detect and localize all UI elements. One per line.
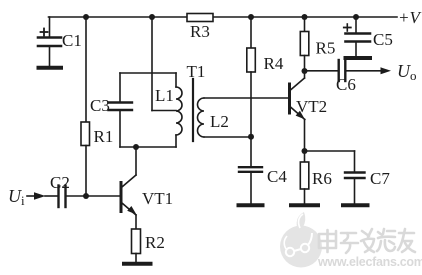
node: R4/L2/C4 junction: [248, 134, 254, 140]
svg-text:R1: R1: [94, 127, 114, 146]
svg-text:C1: C1: [62, 31, 82, 50]
capacitor C3: [109, 103, 133, 111]
svg-text:R2: R2: [145, 233, 165, 252]
svg-text:VT2: VT2: [296, 97, 327, 116]
svg-text:C2: C2: [50, 173, 70, 192]
node: rail to R4: [248, 14, 254, 20]
capacitor C4: [239, 167, 262, 203]
node: VT2 emitter / R6 / C7: [302, 148, 308, 154]
svg-text:R3: R3: [190, 22, 210, 41]
transistor VT2: [290, 71, 305, 151]
svg-text:www.elecfans.com: www.elecfans.com: [317, 255, 422, 269]
resistor R2: [132, 229, 141, 262]
watermark text: [317, 229, 422, 269]
node: rail to R5: [302, 14, 308, 20]
resistor R4: [247, 17, 256, 167]
svg-text:L2: L2: [210, 112, 229, 131]
watermark logo: [280, 212, 322, 268]
resistor R5: [300, 17, 309, 71]
svg-text:L1: L1: [155, 86, 174, 105]
svg-text:+V: +V: [398, 8, 422, 27]
output arrow Uo: [381, 67, 392, 74]
node: rail to R1: [83, 14, 89, 20]
svg-text:C3: C3: [90, 96, 110, 115]
capacitor C6: [305, 60, 382, 81]
svg-text:C4: C4: [267, 167, 287, 186]
svg-text:T1: T1: [187, 62, 206, 81]
capacitor C1 (electrolytic): [38, 17, 61, 66]
ground under C4: [239, 203, 263, 207]
inductor L2 (secondary winding of T1): [198, 98, 288, 137]
inductor L1 (primary winding of T1): [176, 73, 182, 147]
wire: tank circuit frame: [120, 73, 176, 147]
svg-text:C7: C7: [370, 169, 390, 188]
ground under C1: [39, 66, 62, 70]
wire: junction to VT1 base: [86, 195, 120, 197]
ground under R6: [291, 203, 318, 207]
resistor R6: [300, 151, 309, 204]
svg-text:R5: R5: [316, 39, 336, 58]
node: C2/R1/base junction: [83, 193, 89, 199]
svg-text:VT1: VT1: [142, 189, 173, 208]
ground under C7: [343, 203, 368, 207]
node: VT2 collector / R5 / C6: [302, 68, 308, 74]
node: rail to C5: [353, 14, 359, 20]
wire: +V supply rail: [49, 16, 398, 18]
node: rail to L1 tap: [149, 14, 155, 20]
wire: rail to L1 center tap: [152, 17, 176, 111]
svg-text:R6: R6: [312, 169, 332, 188]
resistor R3: [187, 14, 213, 22]
capacitor C2: [59, 186, 84, 208]
transistor VT1: [121, 147, 137, 229]
node: VT1 collector to tank: [133, 144, 139, 150]
capacitor C7: [345, 151, 365, 204]
capacitor C5 (electrolytic): [344, 17, 370, 57]
ground under R2: [124, 262, 151, 266]
resistor R1: [81, 17, 90, 196]
transformer T1 core: [192, 79, 194, 141]
input arrow: [27, 192, 57, 200]
svg-text:R4: R4: [264, 54, 284, 73]
svg-text:C6: C6: [336, 75, 356, 94]
svg-text:C5: C5: [373, 30, 393, 49]
wire: emitter node to C7: [305, 150, 355, 152]
ground under C5: [346, 56, 371, 60]
